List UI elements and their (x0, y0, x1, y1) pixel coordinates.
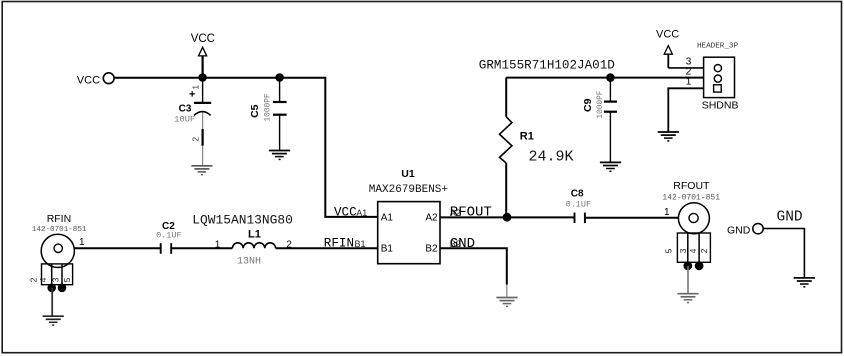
capacitor C8 (566, 188, 592, 223)
power symbol VCC (top left) (191, 33, 215, 78)
svg-text:10UF: 10UF (174, 114, 195, 124)
svg-text:LQW15AN13NG80: LQW15AN13NG80 (192, 213, 293, 228)
svg-text:2: 2 (699, 248, 709, 253)
svg-text:1: 1 (191, 85, 201, 90)
svg-text:1: 1 (215, 239, 221, 250)
wire header pin 1 to ground (668, 88, 703, 132)
net label RFOUT (A2) (450, 205, 492, 221)
svg-text:2: 2 (29, 277, 39, 282)
ground under RFOUT (677, 294, 698, 303)
wire GRM rail to header pin 2 (506, 77, 703, 79)
svg-text:GND: GND (777, 209, 803, 225)
ground under B2 (496, 298, 517, 307)
ground under RFIN (43, 316, 64, 325)
pin number A2 (450, 208, 461, 218)
svg-text:5: 5 (663, 248, 673, 253)
svg-text:2: 2 (686, 66, 692, 77)
svg-text:C8: C8 (571, 188, 584, 199)
svg-text:B2: B2 (425, 244, 438, 255)
svg-text:L1: L1 (248, 229, 261, 241)
wire RFIN to C2 (74, 247, 160, 249)
svg-text:B1: B1 (381, 244, 394, 255)
node junction VCC/C3 (198, 73, 207, 82)
net label GRM155R71H102JA01D (479, 59, 615, 73)
connector RFIN 142-0701-851 (29, 213, 87, 316)
capacitor C3 (174, 78, 211, 166)
wire U1 A2 to C8 / RFOUT (440, 216, 575, 218)
svg-text:B1: B1 (355, 239, 366, 249)
wire VCC to header pin 3 (668, 67, 703, 69)
svg-text:R1: R1 (520, 131, 534, 143)
ground under C5 (269, 151, 290, 160)
svg-text:U1: U1 (401, 168, 415, 180)
svg-text:RFOUT: RFOUT (673, 180, 710, 192)
svg-text:GND: GND (727, 225, 751, 237)
svg-text:2: 2 (191, 137, 201, 142)
wire GND port to ground (763, 229, 804, 278)
svg-text:142-0701-851: 142-0701-851 (32, 226, 87, 234)
svg-text:MAX2679BENS+: MAX2679BENS+ (369, 184, 448, 196)
svg-text:A2: A2 (425, 212, 438, 223)
svg-text:GND: GND (450, 236, 475, 252)
svg-text:5: 5 (62, 277, 72, 282)
svg-text:A1: A1 (381, 212, 394, 223)
svg-text:4: 4 (688, 248, 698, 253)
svg-text:GRM155R71H102JA01D: GRM155R71H102JA01D (479, 59, 615, 73)
wire C8 to RFOUT (585, 217, 679, 219)
svg-text:VCC: VCC (656, 28, 679, 40)
pin number B2 (450, 239, 461, 249)
svg-text:0.1UF: 0.1UF (566, 200, 592, 210)
svg-text:VCC: VCC (191, 33, 215, 45)
svg-text:VCC: VCC (77, 75, 100, 87)
node junction VCC/C5 (275, 73, 284, 82)
wire VCC rail to U1 pin A1 (114, 78, 378, 217)
port GND (right) (727, 209, 803, 236)
svg-text:HEADER_3P: HEADER_3P (697, 43, 738, 51)
net label VCC (A1) (334, 205, 357, 219)
inductor L1 (192, 213, 293, 268)
svg-text:C5: C5 (249, 104, 261, 118)
port VCC (left) (77, 73, 114, 87)
connector J1 HEADER_3P (686, 43, 739, 112)
pin number B1 (355, 239, 366, 249)
capacitor C2 (156, 221, 182, 254)
pin number A1 (356, 208, 367, 218)
connector RFOUT 142-0701-851 (662, 180, 720, 293)
ground under GND port (794, 278, 815, 287)
svg-text:1000PF: 1000PF (597, 90, 605, 118)
node junction GRM/C9 (606, 73, 615, 82)
IC U1 MAX2679BENS+ (369, 168, 448, 264)
capacitor C9 (582, 78, 617, 163)
svg-text:RFOUT: RFOUT (450, 205, 492, 221)
net label GND (B2) (450, 236, 475, 252)
svg-text:SHDNB: SHDNB (702, 99, 739, 111)
svg-text:A1: A1 (356, 208, 367, 218)
net label RFIN (B1) (324, 237, 354, 251)
svg-text:1: 1 (686, 77, 692, 88)
svg-text:13NH: 13NH (237, 257, 261, 268)
node junction A2/R1 (503, 213, 512, 222)
svg-text:1: 1 (664, 207, 670, 218)
svg-text:RFIN: RFIN (324, 237, 354, 251)
svg-text:3: 3 (51, 277, 61, 282)
svg-text:4: 4 (38, 277, 48, 282)
svg-text:0.1UF: 0.1UF (156, 231, 182, 241)
wire C2 to L1 (172, 247, 233, 249)
resistor R1 (500, 78, 574, 218)
svg-text:1: 1 (79, 237, 85, 248)
wire U1 B2 to ground (440, 248, 507, 297)
svg-text:RFIN: RFIN (47, 213, 71, 225)
svg-text:C9: C9 (582, 98, 594, 112)
svg-text:142-0701-851: 142-0701-851 (662, 194, 720, 203)
capacitor C5 (249, 78, 286, 151)
svg-text:C3: C3 (179, 104, 192, 115)
ground under C3 (191, 166, 212, 175)
svg-text:1000PF: 1000PF (264, 93, 272, 121)
svg-text:24.9K: 24.9K (529, 149, 574, 166)
svg-text:3: 3 (678, 248, 688, 253)
ground under header pin 1 (658, 132, 679, 141)
ground under C9 (600, 162, 621, 171)
svg-text:VCC: VCC (334, 205, 357, 219)
wire L1 to U1 pin B1 (276, 247, 378, 249)
power symbol VCC (top right) (656, 28, 679, 68)
